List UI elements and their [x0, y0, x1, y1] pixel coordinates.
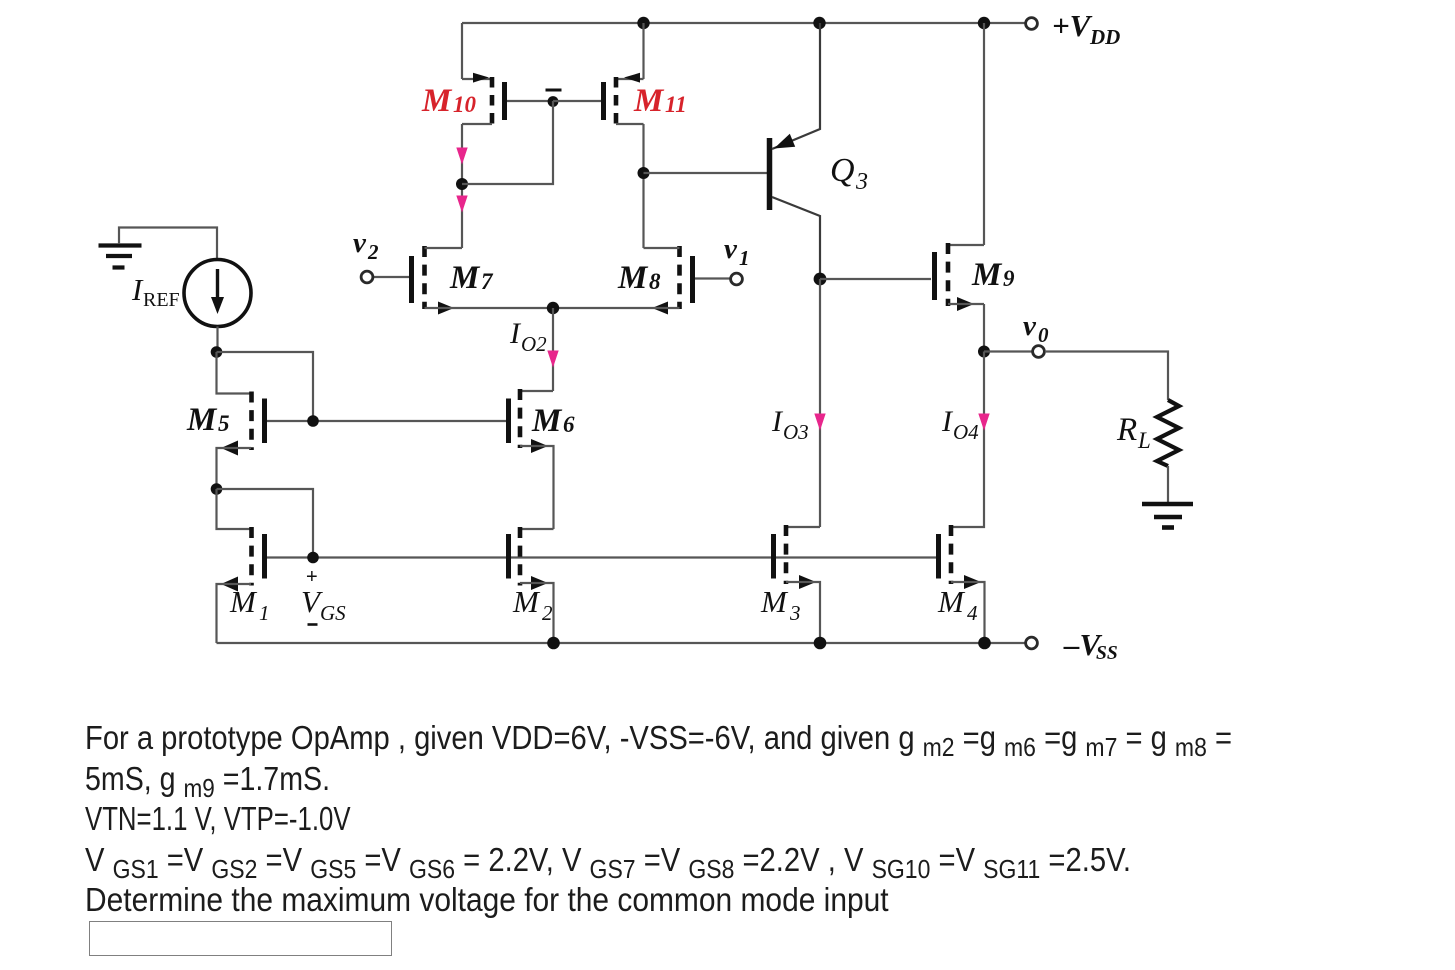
node M3 source rail junction: [814, 637, 827, 650]
transistor M8 source arrow: [652, 302, 668, 315]
label VGS minus: [308, 623, 318, 626]
label RL: [1116, 412, 1151, 453]
wire M11 drain stub: [616, 123, 644, 125]
wire M5-M6 gate wire: [267, 420, 508, 422]
label IO2: [509, 317, 547, 356]
current arrow M10 drain lower: [457, 196, 467, 211]
resistor RL: [1157, 400, 1179, 466]
wire RL to ground: [1167, 466, 1169, 503]
label Q3: [830, 152, 868, 195]
label VGS: [301, 584, 346, 625]
node v0 junction: [978, 346, 990, 358]
label M4: [937, 584, 978, 625]
wire M7 drain stub: [425, 247, 463, 249]
answer input box: [89, 921, 392, 956]
svg-text:M: M: [421, 83, 453, 119]
wire v0 to RL: [1045, 352, 1168, 401]
terminal v0: [1033, 346, 1045, 358]
label IREF: [131, 272, 180, 311]
wire M7 source to tail node: [425, 307, 554, 309]
transistor M4 gate plate: [936, 534, 941, 579]
svg-text:M: M: [760, 584, 789, 619]
wire M6 drain stub: [520, 390, 553, 392]
svg-text:M: M: [186, 402, 218, 438]
label M2: [512, 584, 553, 625]
wire M8 source to tail node: [553, 307, 680, 309]
transistor M7 channel: [422, 246, 427, 309]
transistor M11 source arrow: [624, 73, 640, 83]
label v0: [1023, 310, 1049, 347]
wire M3 drain stub: [786, 526, 820, 528]
terminal v1: [731, 273, 743, 285]
current arrow M10 drain upper: [457, 148, 467, 163]
current source IREF arrowhead: [211, 297, 224, 314]
transistor M6 gate plate: [506, 399, 511, 444]
svg-text:6: 6: [563, 412, 575, 437]
wire gate node to M10 drain: [462, 101, 553, 184]
svg-text:M: M: [937, 584, 966, 619]
terminal v2: [361, 271, 373, 283]
svg-text:DD: DD: [1089, 25, 1120, 49]
svg-text:4: 4: [967, 601, 978, 625]
svg-text:SS: SS: [1096, 643, 1118, 664]
wire M2 source to rail: [520, 583, 554, 643]
transistor M10 channel: [490, 77, 495, 125]
transistor M9 channel: [946, 243, 951, 306]
transistor M11 gate plate: [601, 82, 606, 120]
wire ground to IREF top: [119, 228, 217, 260]
wire M1 drain node to gate: [217, 489, 314, 558]
label v2: [353, 227, 379, 264]
node M11 drain junction: [638, 167, 650, 179]
svg-text:1: 1: [259, 601, 270, 625]
wire M11 gate lead: [553, 100, 601, 102]
node M10-M11 gate junction: [548, 96, 559, 107]
node M5 source-M1 junction: [211, 483, 223, 495]
svg-text:M: M: [633, 83, 665, 119]
wire M5 drain: [217, 352, 252, 394]
wire v1 lead: [695, 277, 731, 279]
svg-text:2: 2: [542, 601, 553, 625]
transistor M3 channel: [784, 525, 789, 584]
transistor M4 source arrow: [964, 575, 981, 589]
label VGS plus: [306, 566, 318, 588]
svg-text:L: L: [1137, 428, 1151, 453]
wire M3 source to rail: [786, 582, 820, 643]
wire M1 drain: [217, 489, 252, 529]
wire M1 source to rail: [217, 584, 252, 643]
transistor M5 channel: [249, 392, 254, 451]
wire tail node to M6 drain: [552, 308, 554, 391]
terminal -VSS: [1026, 637, 1038, 649]
wire M9 source stub: [948, 303, 984, 305]
svg-text:7: 7: [481, 269, 494, 294]
transistor M8 channel: [677, 246, 682, 309]
transistor M9 gate plate: [932, 252, 937, 300]
node M10 drain-gate junction: [456, 178, 468, 190]
label -VSS: [1063, 627, 1118, 664]
current source IREF arrow: [216, 269, 219, 299]
transistor M2 source arrow: [531, 576, 548, 590]
svg-text:0: 0: [1038, 323, 1049, 347]
wire M10 source: [461, 23, 463, 79]
svg-text:M: M: [449, 260, 481, 296]
label M8: [617, 260, 661, 296]
transistor M9 source arrow: [957, 297, 974, 311]
svg-text:9: 9: [1003, 266, 1015, 291]
node M5 gate junction: [307, 415, 319, 427]
wire M10 drain stub: [462, 123, 492, 125]
node M2 source rail junction: [547, 637, 560, 650]
wire M5 source: [217, 448, 252, 489]
wire M11 drain to Q3 base: [644, 172, 768, 174]
wire -VSS bottom rail: [217, 642, 1026, 644]
transistor M7 gate plate: [409, 256, 414, 303]
svg-text:5: 5: [218, 411, 230, 436]
svg-text:v: v: [353, 227, 367, 259]
wire Q3 collector to M3 drain: [819, 279, 821, 527]
wire IREF to M5: [216, 327, 218, 353]
transistor Q3 base bar: [767, 138, 773, 210]
label M7: [449, 260, 494, 296]
wire M11 source stub: [616, 78, 644, 80]
transistor M6 channel: [518, 389, 523, 448]
wire M2 drain stub: [520, 528, 554, 530]
label M3: [760, 584, 801, 625]
transistor Q3 emitter: [772, 23, 820, 149]
svg-text:8: 8: [649, 269, 661, 294]
transistor M6 source arrow: [531, 439, 548, 453]
transistor M1 gate plate: [262, 534, 267, 579]
transistor M5 gate plate: [262, 399, 267, 444]
svg-text:+V: +V: [1052, 8, 1093, 43]
transistor M11 channel: [614, 77, 619, 125]
svg-text:M: M: [617, 260, 649, 296]
svg-text:3: 3: [855, 169, 868, 195]
node IREF-M5 junction: [211, 346, 223, 358]
label IO3: [771, 405, 809, 444]
transistor M3 source arrow: [799, 575, 816, 589]
transistor M4 channel: [949, 525, 954, 584]
terminal +VDD: [1026, 18, 1038, 30]
svg-text:10: 10: [453, 92, 477, 117]
wire v0 node to terminal: [984, 350, 1032, 352]
transistor M2 gate plate: [506, 534, 511, 579]
transistor M5 source arrow: [221, 441, 238, 456]
svg-text:1: 1: [739, 246, 750, 270]
transistor M1 channel: [249, 527, 254, 586]
label M1: [229, 584, 270, 625]
transistor M10 gate plate: [502, 82, 507, 120]
svg-text:v: v: [1023, 310, 1037, 342]
svg-text:M: M: [971, 257, 1003, 293]
wire M10 gate lead: [507, 100, 553, 102]
node VDD-M9 junction: [978, 17, 990, 29]
wire M11 source: [642, 23, 644, 79]
svg-text:11: 11: [665, 92, 687, 117]
wire Q3 collector to M9 gate: [820, 278, 931, 280]
wire M11 drain to M8: [642, 124, 644, 248]
svg-text:O4: O4: [953, 420, 979, 444]
svg-text:Q: Q: [830, 152, 855, 189]
transistor M10 source arrow: [473, 73, 489, 83]
ground under RL: [1142, 504, 1193, 528]
node VDD-Q3 junction: [813, 17, 825, 29]
label M5: [186, 402, 230, 438]
transistor M8 gate plate: [690, 256, 695, 303]
label M6: [531, 403, 575, 439]
transistor M2 channel: [518, 527, 523, 586]
svg-text:v: v: [724, 233, 738, 265]
label M11: [633, 83, 687, 119]
svg-text:3: 3: [789, 601, 801, 625]
svg-text:GS: GS: [320, 601, 346, 625]
svg-text:2: 2: [367, 240, 379, 264]
wire M9 drain stub: [948, 244, 984, 246]
current arrow IO2: [548, 351, 558, 366]
svg-text:O3: O3: [783, 420, 809, 444]
label M10: [421, 83, 477, 119]
wire M8 drain stub: [644, 247, 680, 249]
svg-text:O2: O2: [521, 332, 547, 356]
svg-text:M: M: [512, 584, 541, 619]
wire v2 lead: [373, 276, 409, 278]
wire M4 drain to v0: [951, 352, 984, 528]
svg-text:M: M: [531, 403, 563, 439]
transistor M7 source arrow: [438, 302, 454, 315]
current arrow IO3: [815, 414, 825, 429]
label +VDD: [1052, 8, 1120, 49]
node tail junction M7-M8: [547, 302, 559, 314]
wire M10 source stub: [462, 78, 492, 80]
transistor M3 gate plate: [771, 534, 776, 579]
label M9: [971, 257, 1015, 293]
transistor M1 source arrow: [221, 577, 238, 592]
wire gate bus M1-M2-M3-M4: [267, 556, 936, 558]
wire M6 source: [520, 446, 554, 529]
wire IREF node to M5 gate: [217, 352, 314, 421]
transistor Q3 emitter arrow: [774, 134, 795, 149]
wire M10 drain to M7: [461, 124, 463, 248]
current arrow IO4: [979, 414, 989, 429]
label IO4: [941, 405, 979, 444]
wire M9 source to v0: [983, 304, 985, 351]
label v1: [724, 233, 750, 270]
node Q3 collector junction: [814, 273, 827, 286]
node M1 gate junction: [307, 552, 319, 564]
node M4 source rail junction: [978, 637, 991, 650]
svg-text:R: R: [1116, 412, 1137, 448]
wire M9 drain: [983, 23, 985, 245]
bulk dash above gate node: [546, 89, 562, 92]
svg-text:REF: REF: [143, 289, 180, 311]
wire M4 source to rail: [951, 582, 985, 643]
node VDD-M11 junction: [637, 17, 649, 29]
current source IREF: [184, 260, 251, 327]
wire +VDD top rail: [462, 22, 1025, 24]
ground top-left: [99, 246, 142, 268]
transistor Q3 collector: [772, 197, 820, 279]
